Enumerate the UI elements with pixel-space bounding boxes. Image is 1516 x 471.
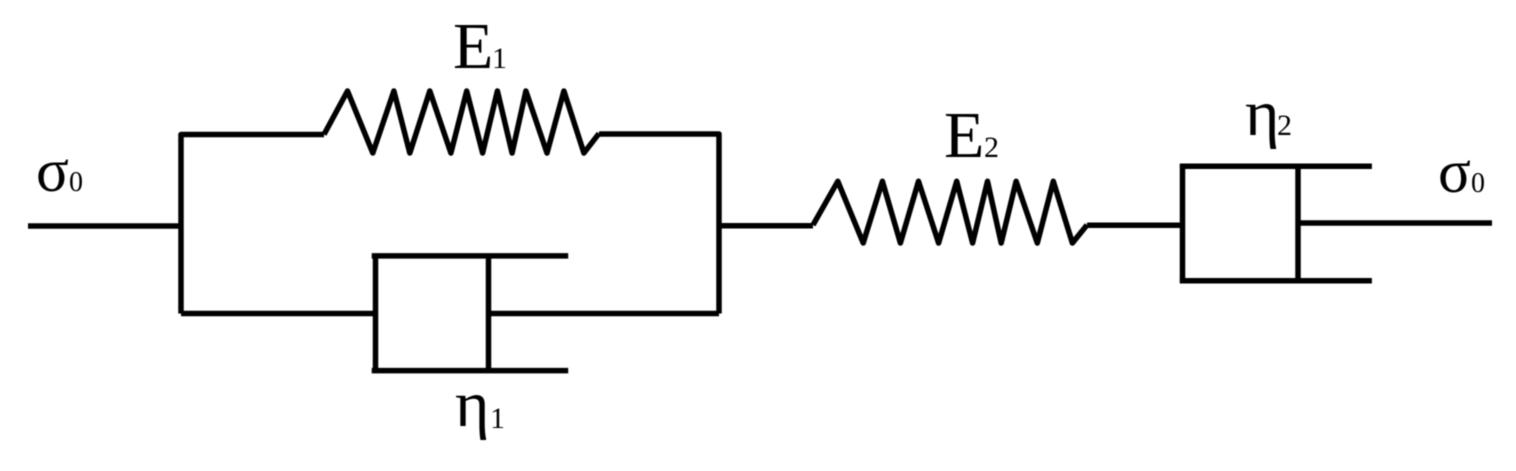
dashpot η2 cylinder bottom wall xyxy=(1180,278,1372,284)
svg-text:0: 0 xyxy=(1471,168,1485,199)
dashpot η1 cylinder top wall xyxy=(372,253,569,259)
dashpot η2 cylinder top wall xyxy=(1180,164,1372,170)
label η1 (dashpot viscosity) xyxy=(455,368,505,441)
wire: left vertical + top branch to spring E1 xyxy=(181,135,324,314)
dashpot η2 piston plate xyxy=(1295,164,1301,283)
wire: top branch from spring E1 to right vertical xyxy=(599,134,719,314)
svg-text:0: 0 xyxy=(69,167,83,198)
wire: left input lead xyxy=(28,223,181,229)
wire: dashpot η1 piston rod to right vertical xyxy=(489,311,720,317)
wire: spring E2 to dashpot η2 xyxy=(1087,223,1183,229)
label E1 (spring modulus) xyxy=(453,10,507,83)
label E2 (spring modulus) xyxy=(944,99,999,172)
svg-text:η: η xyxy=(1245,77,1280,150)
svg-text:E: E xyxy=(453,10,493,83)
svg-text:E: E xyxy=(944,99,984,172)
label η2 (dashpot viscosity) xyxy=(1245,77,1292,150)
svg-text:2: 2 xyxy=(984,131,999,164)
spring E2 (zigzag) xyxy=(813,181,1087,243)
svg-text:η: η xyxy=(455,368,490,441)
svg-text:1: 1 xyxy=(490,402,505,435)
dashpot η2 cylinder left wall xyxy=(1180,164,1186,283)
dashpot η1 cylinder left wall xyxy=(373,254,379,374)
label σ0 (right applied stress) xyxy=(1438,139,1485,206)
dashpot η1 cylinder bottom wall xyxy=(372,368,569,374)
spring E1 (zigzag) xyxy=(324,91,599,153)
svg-text:1: 1 xyxy=(492,42,507,75)
svg-text:2: 2 xyxy=(1277,109,1292,142)
label σ0 (left applied stress) xyxy=(36,138,83,205)
svg-text:σ: σ xyxy=(1438,139,1471,206)
svg-text:σ: σ xyxy=(36,138,69,205)
dashpot η1 piston plate xyxy=(486,254,492,374)
wire: bottom branch from left vertical to dashpot η1 xyxy=(181,311,376,317)
wire: middle lead from parallel block to spring E2 xyxy=(719,223,813,229)
wire: right output lead from dashpot η2 piston xyxy=(1298,220,1492,226)
